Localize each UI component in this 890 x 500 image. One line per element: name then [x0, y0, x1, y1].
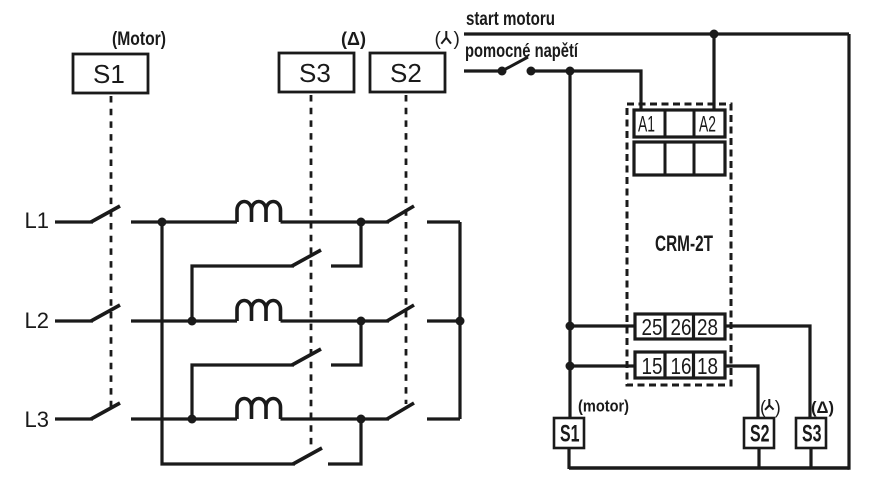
svg-text:L1: L1	[25, 208, 49, 233]
svg-text:S2: S2	[390, 58, 422, 88]
svg-text:S1: S1	[560, 421, 580, 448]
wire terminal 18 to S2	[725, 366, 758, 418]
contact K3 bypass blade upper	[292, 250, 321, 266]
winding coil L3	[237, 399, 281, 420]
box S3 top	[279, 53, 354, 92]
node riser/terminal 15	[566, 362, 575, 371]
wire S2 to bottom bus	[757, 448, 760, 469]
terminal row 25/26/28	[635, 314, 725, 340]
svg-text:16: 16	[671, 353, 692, 379]
svg-text:): )	[454, 29, 460, 50]
dashed link S1 contactor	[110, 96, 113, 412]
wire terminal 28 to S3	[725, 326, 810, 418]
contact K2 blade L3	[387, 403, 414, 419]
wire A2 drop	[712, 34, 715, 111]
svg-text:A1: A1	[638, 112, 655, 137]
node L2 left junction	[188, 317, 197, 326]
wire L3 to star bridge	[427, 417, 460, 420]
node L3 left junction	[188, 415, 197, 424]
wire L2 after coil	[281, 319, 390, 322]
node aux contact a	[498, 67, 507, 76]
wire L1 after coil	[281, 220, 390, 223]
dashed link S2 contactor	[405, 95, 408, 404]
svg-text:25: 25	[642, 314, 663, 340]
node L2 right junction	[357, 317, 366, 326]
svg-text:L2: L2	[25, 308, 49, 333]
svg-text:28: 28	[697, 314, 718, 340]
node L1 right junction	[357, 218, 366, 227]
wire right edge	[847, 34, 850, 470]
node aux/S1 riser junction	[566, 67, 575, 76]
winding coil L2	[237, 301, 281, 322]
wire S1 riser	[568, 71, 571, 418]
wire terminal 15 left	[570, 364, 635, 367]
node start/A2 junction	[710, 30, 719, 39]
svg-text:(Δ): (Δ)	[811, 398, 834, 417]
svg-text:S3: S3	[802, 421, 822, 448]
wire L3 after coil	[281, 417, 390, 420]
contact K3 bypass blade bottom	[293, 448, 322, 464]
label (turned-Y) bottom	[760, 398, 781, 418]
wire L2 to coil	[131, 319, 237, 322]
node L1 left junction	[158, 218, 167, 227]
wire bypass middle hook to L2	[331, 321, 361, 365]
wire aux feed	[464, 69, 502, 72]
svg-text:(Δ): (Δ)	[341, 29, 366, 49]
contact aux blade	[502, 57, 528, 71]
wire L3 feed	[55, 417, 93, 420]
wire L2 feed	[55, 319, 93, 322]
box S3 bottom	[796, 418, 826, 448]
svg-text:(: (	[435, 29, 442, 50]
dashed link S3 contactor	[310, 95, 313, 449]
box S2 top	[370, 53, 445, 92]
terminal row 15/16/18	[635, 352, 725, 379]
wire L1 to star bridge	[427, 220, 460, 223]
wire S3 to bottom bus	[809, 448, 812, 469]
svg-text:(Motor): (Motor)	[112, 29, 166, 50]
wire bypass L3 to middle	[192, 365, 294, 419]
svg-text:26: 26	[671, 314, 692, 340]
svg-text:(motor): (motor)	[578, 397, 629, 416]
box S1 bottom	[554, 418, 584, 448]
wire L1 to coil	[131, 220, 237, 223]
wire bypass bottom hook to L3	[328, 419, 361, 464]
wire start motoru	[464, 32, 849, 35]
contact K1 blade L1	[91, 206, 120, 222]
node star bridge L2	[456, 317, 465, 326]
box S2 bottom	[744, 418, 774, 448]
wire terminal 25 left	[570, 324, 635, 327]
svg-text:start motoru: start motoru	[466, 9, 555, 30]
box S1 top	[73, 54, 148, 93]
svg-text:(: (	[760, 398, 766, 418]
svg-text:18: 18	[697, 353, 718, 379]
svg-text:15: 15	[642, 353, 663, 379]
node L3 right junction	[357, 415, 366, 424]
svg-text:CRM-2T: CRM-2T	[655, 231, 713, 256]
wire L3 to coil	[131, 417, 237, 420]
terminal row A1/A2	[634, 110, 725, 137]
terminal row blank	[634, 142, 725, 175]
label (turned-Y) top	[435, 29, 460, 50]
node riser/terminal 25	[566, 322, 575, 331]
contact K2 blade L2	[387, 305, 414, 321]
winding coil L1	[237, 202, 281, 223]
wire L2 to star bridge	[427, 319, 460, 322]
svg-text:S2: S2	[750, 421, 770, 448]
svg-text:S3: S3	[299, 58, 331, 88]
svg-text:L3: L3	[25, 407, 49, 432]
wire L1 delta leg	[162, 222, 295, 464]
relay CRM-2T dashed outline	[627, 104, 731, 385]
wire S1 to bottom bus	[567, 448, 570, 469]
contact K3 bypass blade middle	[292, 349, 321, 365]
wire bypass L2 to upper	[192, 266, 294, 321]
svg-text:S1: S1	[93, 59, 125, 89]
wire bypass upper hook to L1	[331, 222, 361, 266]
contact K2 blade L1	[387, 206, 414, 222]
wire aux to A1	[531, 71, 641, 111]
wire bottom bus	[569, 466, 849, 470]
contact K1 blade L2	[91, 305, 120, 321]
svg-text:): )	[775, 398, 781, 418]
svg-text:A2: A2	[699, 112, 716, 137]
wire star bridge	[458, 222, 461, 419]
contact K1 blade L3	[91, 403, 120, 419]
wire L1 feed	[55, 220, 93, 223]
node aux contact b	[527, 67, 536, 76]
